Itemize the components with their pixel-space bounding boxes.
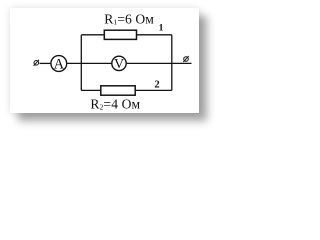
wire: top branch left <box>81 34 104 36</box>
wire: bottom branch right <box>135 89 172 91</box>
svg-text:V: V <box>114 57 124 72</box>
resistor R1 <box>104 30 136 39</box>
node: right junction vertical <box>171 35 173 91</box>
svg-text:A: A <box>54 56 65 72</box>
terminal left ø <box>34 60 39 66</box>
svg-text:R2=4 Ом: R2=4 Ом <box>90 96 140 111</box>
svg-text:1: 1 <box>159 23 164 34</box>
wire: voltmeter to right junction <box>127 62 172 64</box>
resistor R2 <box>101 86 135 95</box>
wire: ammeter to voltmeter (through left junction) <box>67 62 112 64</box>
voltmeter V <box>112 56 126 72</box>
wire: right junction to right terminal <box>172 62 192 64</box>
node: left junction vertical <box>80 35 82 91</box>
white picture panel with drop shadow <box>10 8 199 113</box>
wire: top branch right <box>137 34 172 36</box>
wire: bottom branch left <box>81 89 101 91</box>
terminal right ø <box>183 56 188 62</box>
svg-text:R1=6 Ом: R1=6 Ом <box>104 11 154 26</box>
ammeter A <box>51 56 67 73</box>
wire: left terminal to ammeter <box>40 62 51 64</box>
svg-text:2: 2 <box>154 80 159 91</box>
